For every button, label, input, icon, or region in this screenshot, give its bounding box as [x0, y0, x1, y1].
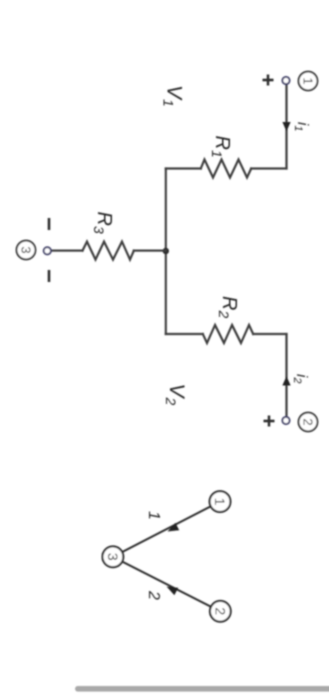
node label 3 (circled): [17, 241, 36, 260]
svg-text:1: 1: [212, 498, 228, 506]
svg-text:R2: R2: [216, 296, 240, 318]
svg-text:1: 1: [300, 77, 315, 84]
graph edge 2 (from node 2 to node 3): [122, 562, 210, 607]
arrowhead on edge 1: [168, 523, 180, 532]
svg-text:R3: R3: [91, 212, 115, 234]
svg-text:V2: V2: [163, 384, 188, 406]
svg-text:i1: i1: [292, 122, 311, 131]
graph edge 1 (from node 1 to node 3): [122, 507, 210, 552]
graph node 1 (circled): [210, 491, 231, 512]
minus sign right of terminal 3: [48, 270, 51, 282]
plus sign at terminal 2: [264, 416, 275, 427]
node label 1 (circled): [299, 72, 318, 91]
wire: R1 branch upper segment: [251, 167, 286, 169]
svg-text:2: 2: [145, 590, 162, 600]
wire: R2 branch lower segment: [166, 333, 203, 335]
terminal 2 (open circle): [282, 417, 289, 424]
wire: R3 branch upper segment: [134, 250, 166, 252]
terminal 1 (open circle): [282, 77, 289, 84]
wire: R2 branch corner to terminal 2 (top-right rail): [285, 334, 287, 417]
svg-text:R1: R1: [209, 136, 233, 158]
svg-text:1: 1: [145, 511, 162, 520]
wire: R3 branch lower segment to terminal 3: [51, 250, 82, 252]
arrow i1 (current into circuit, pointing right): [282, 122, 290, 132]
graph node 3 (circled): [102, 546, 123, 567]
wire: R2 branch upper segment: [253, 333, 286, 335]
wire: terminal 1 to R1 branch corner (top-left rail): [285, 84, 287, 169]
graph node 2 (circled): [210, 601, 231, 622]
svg-text:V1: V1: [161, 85, 186, 107]
wire: R1 branch lower segment: [166, 167, 201, 169]
resistor R1: [201, 160, 251, 178]
minus sign left of terminal 3: [48, 218, 51, 230]
node: junction dot: [163, 248, 169, 254]
terminal 3 (open circle): [44, 247, 51, 254]
svg-text:i2: i2: [291, 374, 310, 383]
wire: middle rail from R1 branch to R2 branch: [165, 169, 167, 335]
resistor R2: [203, 325, 253, 343]
svg-text:3: 3: [105, 553, 121, 561]
node label 2 (circled): [299, 413, 318, 432]
resistor R3: [83, 242, 134, 260]
plus sign at terminal 1: [263, 75, 274, 86]
svg-text:2: 2: [300, 418, 315, 425]
scrollbar thumb: [75, 686, 329, 692]
arrowhead on edge 2: [167, 587, 179, 596]
arrow i2 (current into circuit, pointing left): [282, 376, 290, 386]
svg-text:3: 3: [18, 246, 33, 253]
svg-text:2: 2: [212, 607, 228, 615]
